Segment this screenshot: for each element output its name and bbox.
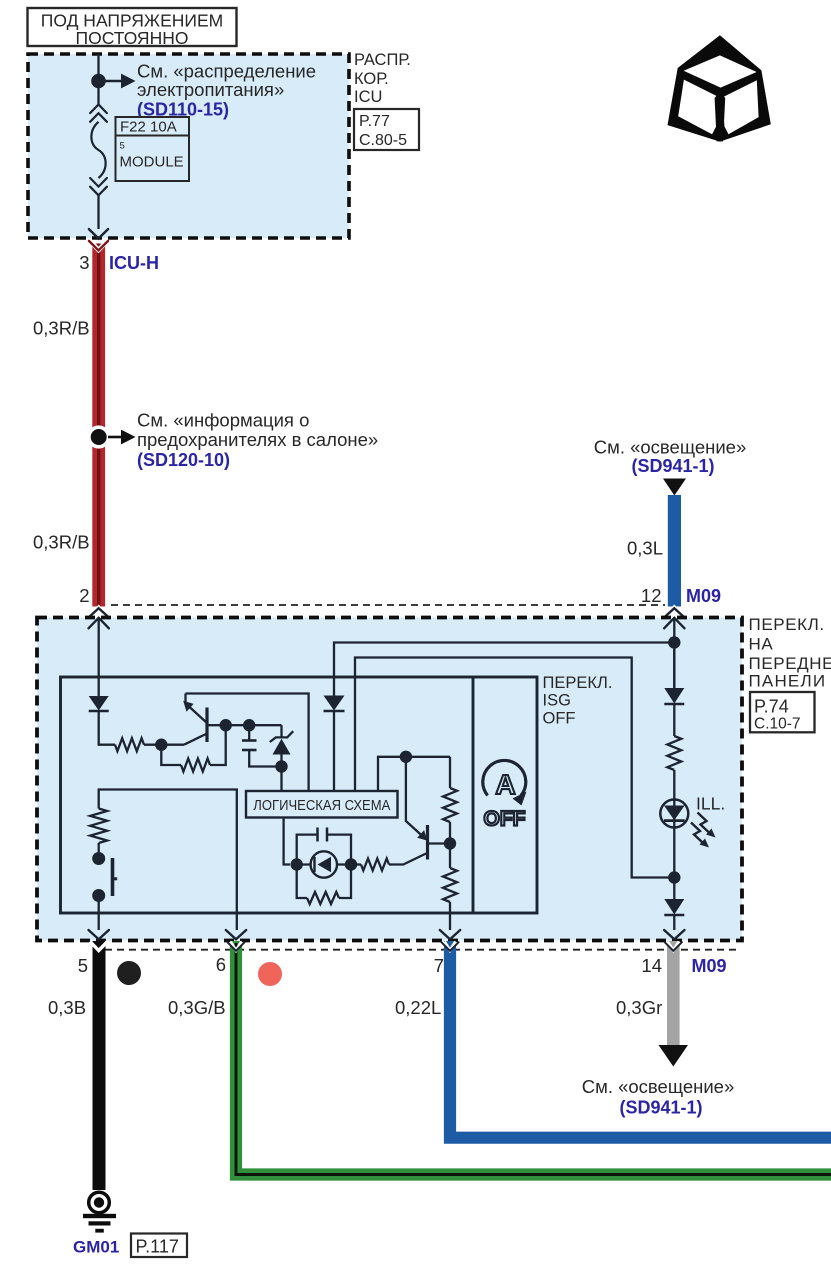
svg-text:С.80-5: С.80-5 — [359, 132, 407, 149]
reference box P.74 C.10-7 — [750, 692, 815, 732]
junction dot node B — [220, 719, 232, 731]
svg-text:0,3L: 0,3L — [627, 538, 663, 559]
svg-text:ПЕРЕКЛ.: ПЕРЕКЛ. — [749, 615, 825, 634]
wire 0,3B (black) to ground — [93, 941, 106, 1190]
fuse label box F22 10A / 5 MODULE — [116, 117, 190, 181]
svg-text:НА: НА — [749, 635, 774, 654]
capacitor C1 — [248, 725, 250, 740]
switch module box (dashed, blue fill) — [37, 618, 742, 941]
pin 5 exit arrow — [98, 913, 100, 930]
resistor R3 (vertical) — [667, 736, 681, 770]
wire from node E to diode D2 — [334, 643, 674, 696]
svg-text:0,3B: 0,3B — [48, 997, 86, 1018]
thin dashed line below box — [93, 949, 740, 951]
svg-text:ПАНЕЛИ: ПАНЕЛИ — [749, 672, 827, 691]
svg-text:С.10-7: С.10-7 — [754, 716, 801, 733]
svg-text:(SD120-10): (SD120-10) — [137, 450, 230, 470]
svg-text:F22 10A: F22 10A — [120, 119, 177, 136]
bypass wire to ILL bottom — [355, 658, 670, 878]
resistor R1 (horizontal) — [115, 738, 144, 751]
pin 12 inner arrow — [664, 618, 684, 629]
connector M09 dashed line (top) — [111, 604, 665, 606]
publisher logo — [668, 35, 771, 141]
photodiode in circle — [297, 863, 351, 865]
wire 0,3G/B (green) — [236, 941, 831, 1175]
resistor R6 (chain upper) — [449, 757, 451, 788]
wire — [99, 711, 115, 745]
svg-text:См. «информация о: См. «информация о — [137, 410, 309, 431]
wire 0,3L (blue) — [668, 495, 681, 607]
base rail of Q1 — [207, 724, 282, 726]
resistor R8 (switch pull) — [98, 843, 100, 859]
svg-text:ПЕРЕКЛ.: ПЕРЕКЛ. — [543, 674, 613, 692]
rail above Q2 — [378, 757, 450, 791]
svg-text:P.77: P.77 — [359, 113, 390, 130]
opto loop top with capacitor C2 — [297, 835, 318, 865]
svg-text:РАСПР.: РАСПР. — [354, 51, 411, 69]
ground GM01 — [89, 1192, 110, 1213]
zener diode Z1 — [280, 725, 282, 737]
svg-text:предохранителях в салоне»: предохранителях в салоне» — [137, 429, 378, 450]
loop wire to pin 6 line — [99, 790, 237, 931]
junction dot node C — [243, 719, 255, 731]
logic circuit box — [246, 791, 398, 818]
junction dot node G — [444, 837, 456, 849]
svg-text:См. «освещение»: См. «освещение» — [594, 437, 747, 458]
svg-text:7: 7 — [434, 955, 444, 976]
light arrows — [698, 813, 710, 834]
wire pin2 down — [98, 618, 100, 696]
reference box P.117 — [131, 1234, 187, 1258]
resistor R5 to Q2 — [351, 863, 361, 865]
ISG A-OFF icon — [483, 760, 526, 795]
emitter wire of Q2 — [405, 757, 407, 822]
diode D2 — [324, 696, 345, 711]
resistor R2 (feedback) — [161, 745, 181, 765]
junction dot node E — [668, 636, 680, 648]
pin 12 entry arrows — [665, 608, 684, 617]
svg-text:0,22L: 0,22L — [395, 997, 441, 1018]
pin 2 entry arrows — [90, 608, 109, 617]
outgoing arrow triangle — [659, 1045, 689, 1067]
wire to node A — [144, 744, 184, 746]
svg-text:OFF: OFF — [543, 709, 576, 727]
junction dot node A — [155, 739, 167, 751]
inner switch unit box — [61, 677, 538, 913]
wire 0,3R/B (red) — [92, 244, 105, 607]
pin 2 inner arrow — [89, 618, 109, 629]
svg-text:0,3Gr: 0,3Gr — [616, 997, 662, 1018]
svg-text:ISG: ISG — [543, 692, 571, 710]
svg-text:OFF: OFF — [484, 808, 526, 831]
svg-text:5: 5 — [78, 955, 88, 976]
svg-text:A: A — [495, 769, 515, 800]
junction dot node D — [275, 760, 287, 772]
arrow to SD110-15 — [105, 80, 122, 83]
svg-text:M09: M09 — [692, 956, 727, 976]
svg-text:0,3R/B: 0,3R/B — [33, 318, 90, 339]
pin 3 exit arrows — [89, 229, 108, 238]
wire 0,3Gr (gray) — [667, 941, 680, 1045]
svg-text:(SD941-1): (SD941-1) — [631, 456, 714, 476]
svg-text:См. «освещение»: См. «освещение» — [582, 1076, 735, 1097]
svg-text:ILL.: ILL. — [696, 794, 725, 814]
diode D4 — [664, 899, 684, 915]
svg-text:GM01: GM01 — [73, 1238, 119, 1257]
node HOT AT ALL TIMES label box — [28, 8, 237, 46]
wire pin12 down to junction — [673, 618, 675, 688]
option dot (black) — [117, 961, 141, 985]
pin 14 exit arrow — [664, 930, 684, 939]
svg-text:0,3R/B: 0,3R/B — [33, 532, 90, 553]
svg-text:КОР.: КОР. — [354, 70, 389, 88]
resistor R7 (chain lower) — [443, 868, 457, 902]
wire from top into fuse box — [97, 54, 99, 104]
junction dot node F — [668, 871, 680, 883]
svg-text:электропитания»: электропитания» — [137, 79, 284, 100]
svg-text:M09: M09 — [686, 586, 721, 606]
opto loop bottom with resistor R4 — [297, 865, 307, 899]
transistor Q1 — [205, 708, 208, 743]
junction dot on red wire — [87, 425, 110, 448]
wire 0,22L (blue) — [450, 941, 831, 1138]
LED ILL lamp — [660, 800, 688, 828]
fuse box ICU (dashed) — [28, 54, 349, 238]
switch SW1 — [98, 896, 100, 914]
svg-text:6: 6 — [216, 954, 226, 975]
svg-text:MODULE: MODULE — [120, 154, 184, 171]
reference box P.77 C.80-5 — [354, 109, 419, 150]
pin 6 exit arrow — [226, 930, 246, 939]
arrow to SD120-10 — [108, 436, 122, 439]
svg-text:3: 3 — [79, 252, 89, 273]
svg-text:ICU-H: ICU-H — [109, 253, 159, 273]
svg-text:ЛОГИЧЕСКАЯ СХЕМА: ЛОГИЧЕСКАЯ СХЕМА — [253, 797, 391, 814]
diode D3 — [673, 643, 675, 689]
svg-text:0,3G/B: 0,3G/B — [168, 997, 226, 1018]
svg-text:ICU: ICU — [354, 88, 382, 106]
svg-text:12: 12 — [641, 585, 662, 606]
svg-text:(SD941-1): (SD941-1) — [619, 1098, 702, 1118]
pin 7 exit arrow — [440, 930, 460, 939]
junction dot — [91, 74, 106, 89]
divider line — [472, 677, 475, 913]
svg-text:P.117: P.117 — [136, 1237, 179, 1257]
svg-text:P.74: P.74 — [754, 697, 789, 717]
emitter rail of Q1 to logic — [186, 694, 309, 792]
svg-text:ПОСТОЯННО: ПОСТОЯННО — [76, 28, 189, 48]
svg-text:5: 5 — [120, 141, 125, 152]
svg-text:ПЕРЕДНЕЙ: ПЕРЕДНЕЙ — [749, 654, 831, 673]
fuse F22 10A symbol — [90, 105, 107, 114]
incoming arrow triangle — [663, 479, 686, 496]
junction dots opto — [291, 858, 303, 870]
wire logic box to opto — [284, 817, 290, 865]
transistor Q2 — [426, 825, 429, 860]
option dot (red) — [258, 962, 282, 986]
svg-text:14: 14 — [641, 955, 662, 976]
svg-text:2: 2 — [79, 585, 89, 606]
diode D1 — [89, 696, 109, 711]
